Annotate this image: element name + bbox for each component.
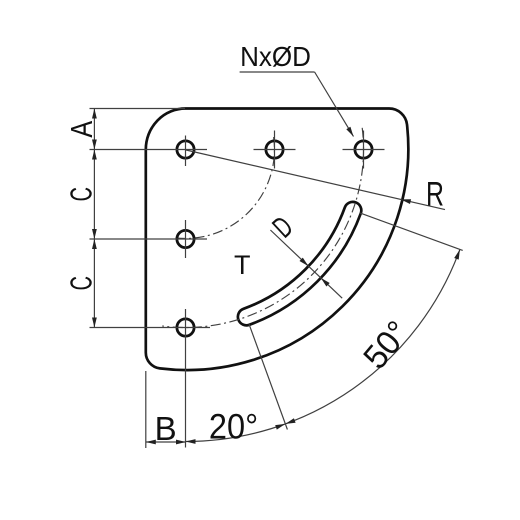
svg-text:C: C [63, 187, 99, 201]
holes NxD [177, 141, 194, 158]
B dimension [145, 371, 147, 448]
svg-text:T: T [234, 250, 251, 280]
angular dimension arc 20/50 [186, 249, 460, 441]
bolt-circle centerline r178 (slot centerline) [162, 128, 363, 328]
svg-text:B: B [155, 410, 177, 447]
left dimension stack A,C,C [93, 109, 95, 328]
hole crosshairs [254, 149, 296, 151]
bolt-circle centerline r89 [173, 137, 274, 238]
NxOD hole callout [240, 71, 315, 73]
slot [238, 202, 361, 325]
extension radial at 70deg [249, 324, 287, 429]
svg-text:20°: 20° [209, 408, 258, 447]
D slot-width dimension [270, 230, 342, 298]
svg-text:C: C [63, 276, 99, 290]
extension radial at 20deg [360, 213, 462, 250]
svg-text:A: A [63, 121, 98, 138]
svg-text:NxØD: NxØD [240, 41, 311, 72]
plate outline [146, 108, 409, 370]
svg-text:R: R [426, 176, 444, 214]
R radius leader [186, 150, 445, 210]
